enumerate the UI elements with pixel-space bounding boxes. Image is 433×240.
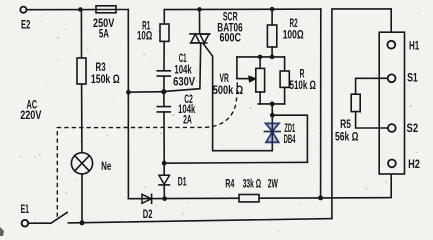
node VR/R bottom bbox=[270, 102, 275, 107]
svg-text:5A: 5A bbox=[99, 27, 109, 41]
svg-text:100Ω: 100Ω bbox=[283, 27, 304, 41]
node R2 top bbox=[270, 7, 275, 12]
terminal E2 bbox=[20, 7, 26, 13]
wire fuse output drop bbox=[127, 10, 129, 199]
svg-text:Ne: Ne bbox=[101, 159, 111, 173]
wire R1 to C1 bbox=[163, 41, 165, 70]
svg-text:600C: 600C bbox=[220, 30, 242, 44]
wire S1 to R5 bbox=[356, 78, 388, 94]
resistor R 510k bbox=[280, 71, 289, 87]
wire R5 to S2 bbox=[356, 112, 388, 128]
capacitor C2 bbox=[157, 107, 170, 112]
node output bbox=[318, 195, 323, 200]
lamp Ne bbox=[71, 153, 92, 174]
wire C2 down to D1 node bbox=[163, 112, 165, 163]
svg-text:150k Ω: 150k Ω bbox=[91, 72, 120, 86]
svg-text:H1: H1 bbox=[409, 39, 419, 53]
wire R1 stub bbox=[163, 10, 165, 24]
corner smudge bbox=[0, 227, 4, 236]
wire D2/R4 line bbox=[128, 197, 320, 200]
svg-text:56k Ω: 56k Ω bbox=[335, 130, 359, 144]
svg-text:E2: E2 bbox=[21, 17, 31, 31]
node lamp bottom bbox=[80, 220, 85, 225]
wire R2 top lead bbox=[271, 9, 273, 25]
wire R top stub bbox=[284, 57, 286, 71]
terminal S2 bbox=[388, 124, 396, 132]
wire diac top lead bbox=[271, 115, 273, 123]
wire H1 to bottom rail bbox=[332, 9, 391, 219]
node R2 bottom junction bbox=[270, 55, 275, 60]
resistor R3 bbox=[77, 58, 86, 84]
resistor R2 bbox=[267, 25, 276, 47]
wire R2 to top bar bbox=[271, 47, 273, 57]
wire triac MT1 to C junction bbox=[164, 43, 201, 91]
wire D1 to bottom line bbox=[163, 185, 165, 199]
svg-text:D1: D1 bbox=[178, 174, 187, 188]
svg-text:H2: H2 bbox=[408, 157, 420, 171]
terminal E1 bbox=[22, 220, 29, 227]
svg-text:R4: R4 bbox=[225, 177, 234, 191]
svg-text:10Ω: 10Ω bbox=[137, 29, 152, 43]
node D1 bottom bbox=[162, 196, 167, 201]
svg-text:220V: 220V bbox=[20, 108, 41, 122]
wire triac top lead bbox=[199, 9, 201, 34]
diode D2 bbox=[142, 194, 151, 203]
wire R bottom stub bbox=[284, 87, 286, 104]
wire output vertical bbox=[320, 9, 322, 198]
node tap left bbox=[126, 90, 131, 95]
wire wiper feed bbox=[236, 57, 238, 79]
node triac top bbox=[197, 7, 202, 12]
node junction top of R3 bbox=[78, 7, 83, 12]
svg-text:2A: 2A bbox=[183, 112, 192, 126]
svg-text:E1: E1 bbox=[21, 202, 30, 216]
resistor R5 56k bbox=[351, 94, 360, 111]
terminal strip box bbox=[379, 32, 404, 174]
node diac top bbox=[270, 113, 275, 118]
wire down to diac node bbox=[271, 104, 273, 115]
wire right loop to C2 line bbox=[272, 115, 307, 162]
svg-text:630V: 630V bbox=[173, 75, 195, 89]
terminal S1 bbox=[388, 74, 396, 82]
wire to H2 bbox=[321, 175, 392, 198]
dashed mechanical link bbox=[57, 81, 237, 217]
wire triac gate bbox=[203, 44, 272, 151]
potentiometer VR 500k bbox=[256, 68, 265, 92]
wire C1 to junction bbox=[163, 76, 165, 92]
svg-text:S1: S1 bbox=[407, 71, 418, 85]
svg-text:S2: S2 bbox=[407, 121, 419, 135]
wire diac bottom lead bbox=[271, 142, 273, 151]
fuse 250V 5A bbox=[96, 6, 116, 13]
terminal H1 bbox=[387, 41, 395, 49]
wire junction to C2 bbox=[163, 92, 165, 107]
wire VR/R bottom bar bbox=[258, 103, 285, 105]
node D1 top bbox=[162, 161, 167, 166]
node C1/C2 junction bbox=[161, 89, 166, 94]
wire E1 to switch bbox=[28, 222, 51, 224]
svg-text:500k Ω: 500k Ω bbox=[213, 83, 244, 97]
svg-text:33k Ω: 33k Ω bbox=[243, 177, 262, 191]
svg-text:D2: D2 bbox=[143, 207, 153, 221]
resistor R4 33k 2W bbox=[239, 195, 259, 202]
svg-text:2W: 2W bbox=[268, 177, 278, 191]
wire R3 to lamp bbox=[81, 84, 83, 153]
node VR top bbox=[258, 55, 263, 60]
switch blade bbox=[51, 212, 67, 223]
wire top rail right segment bbox=[164, 8, 320, 11]
wire bottom rail bbox=[68, 219, 332, 223]
wire VR/R top bar bbox=[237, 56, 285, 58]
diode D1 bbox=[159, 175, 170, 184]
wiper arrow of VR bbox=[237, 78, 251, 80]
capacitor C1 bbox=[157, 71, 170, 76]
wire lamp to bottom rail bbox=[81, 174, 83, 223]
triac SCR BAT06 bbox=[190, 33, 210, 35]
svg-text:DB4: DB4 bbox=[284, 132, 296, 146]
wire tap to C junction bbox=[128, 91, 163, 94]
svg-text:510k Ω: 510k Ω bbox=[290, 78, 317, 92]
wire VR bottom stub bbox=[259, 92, 261, 104]
resistor R1 bbox=[160, 24, 169, 41]
diac ZD1 DB4 bbox=[264, 116, 281, 150]
wire top rail left segment bbox=[27, 9, 129, 11]
wire to D1 bbox=[163, 163, 165, 175]
terminal H2 bbox=[388, 160, 396, 168]
wire C2 bottom line bbox=[164, 161, 307, 164]
wire R3 branch down bbox=[80, 10, 82, 59]
wire VR top stub bbox=[259, 57, 261, 69]
